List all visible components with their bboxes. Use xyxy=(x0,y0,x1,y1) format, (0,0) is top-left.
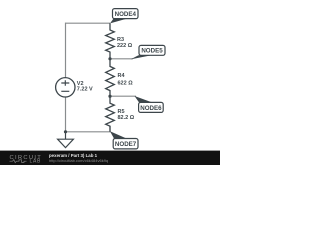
junction node6 xyxy=(108,95,111,98)
ground xyxy=(58,132,74,148)
CircuitLab logo wordmark xyxy=(10,155,43,165)
watermark bar xyxy=(0,151,220,165)
svg-text:R4: R4 xyxy=(118,73,126,79)
node NODE5 flag xyxy=(131,45,166,59)
svg-text:7.22 V: 7.22 V xyxy=(77,87,93,93)
junction node5 xyxy=(108,57,111,60)
svg-text:NODE7: NODE7 xyxy=(115,141,137,148)
svg-text:222 Ω: 222 Ω xyxy=(117,43,133,49)
svg-text:622 Ω: 622 Ω xyxy=(118,80,134,86)
svg-text:NODE4: NODE4 xyxy=(115,11,137,18)
node NODE4 flag xyxy=(110,9,138,24)
resistor R3 xyxy=(106,23,133,59)
wire node5 stub xyxy=(110,58,133,60)
resistor R4 xyxy=(106,59,134,96)
svg-text:LAB: LAB xyxy=(30,159,42,165)
svg-text:NODE6: NODE6 xyxy=(140,105,162,112)
svg-text:R3: R3 xyxy=(117,37,124,43)
resistor R5 xyxy=(106,96,135,132)
svg-text:82.2 Ω: 82.2 Ω xyxy=(118,115,135,121)
wire bottom horizontal xyxy=(66,126,111,132)
watermark url text xyxy=(49,158,108,163)
watermark title text xyxy=(49,153,98,158)
wire node6 stub xyxy=(110,95,136,97)
node NODE7 flag xyxy=(110,131,138,149)
voltage source V2 xyxy=(56,78,93,97)
wire top horizontal xyxy=(66,22,111,24)
wire left vertical xyxy=(65,23,67,132)
junction ground xyxy=(64,130,67,133)
svg-text:http://circuitlab.com/c6k484v6: http://circuitlab.com/c6k484v6k9q xyxy=(49,158,108,163)
svg-text:NODE5: NODE5 xyxy=(141,48,163,55)
node NODE6 flag xyxy=(135,96,164,112)
